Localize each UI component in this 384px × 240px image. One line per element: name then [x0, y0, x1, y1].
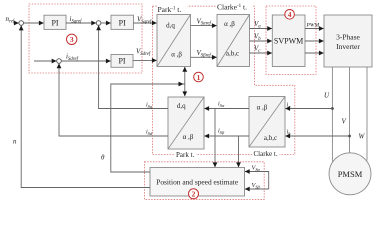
wire theta output to Park transforms	[111, 84, 185, 172]
block SVPWM	[272, 15, 305, 67]
svg-text:PI: PI	[118, 57, 125, 66]
motor PMSM	[329, 153, 371, 195]
wire Park-1 to Clarke-1 row alpha, label V_Saref	[191, 25, 217, 27]
wire i_Sd feedback to S3	[59, 63, 168, 136]
wire PI3 to Park-1, label V_Sdref	[133, 59, 157, 61]
red dashed region 3 (speed/current PI controllers)	[29, 4, 142, 73]
label Clarke-1 t.	[217, 2, 253, 11]
block Clarke inverse transform	[217, 15, 250, 67]
svg-text:PI: PI	[119, 18, 126, 27]
svg-text:Clarke-1 t.: Clarke-1 t.	[217, 3, 247, 12]
red dashed region 4 (SVPWM)	[266, 6, 316, 75]
svg-text:a,b,c: a,b,c	[226, 49, 239, 57]
svg-text:n: n	[13, 138, 17, 146]
svg-text:d,q: d,q	[177, 102, 186, 110]
red circled 3	[67, 34, 77, 44]
wire SVPWM to inverter 3	[305, 52, 324, 54]
wire theta to Park-1 (up arrow)	[184, 67, 186, 84]
svg-text:PI: PI	[51, 18, 58, 27]
block PI2 (q-axis current controller)	[111, 15, 134, 29]
red circled 1	[194, 72, 204, 82]
wire Clarke-1 to SVPWM Vc	[250, 52, 272, 54]
block Clarke transform	[249, 97, 285, 148]
block PI3 (d-axis current controller)	[111, 55, 133, 68]
svg-text:SVPWM: SVPWM	[274, 37, 303, 46]
wire n_ref input	[16, 22, 19, 24]
wire current ib from V to Clarke t., junction dot	[348, 135, 351, 138]
wire i_Salpha Clarke t. to Park t.	[204, 108, 249, 110]
svg-text:α ,β: α ,β	[171, 50, 182, 58]
block Park inverse transform U-Park	[157, 15, 191, 67]
svg-text:V: V	[342, 118, 347, 126]
wire current ia from U to Clarke t., junction dot	[331, 107, 334, 110]
red dashed region 2 (position and speed estimator)	[145, 162, 265, 200]
svg-text:Park-1 t.: Park-1 t.	[158, 5, 182, 14]
svg-text:α ,β: α ,β	[257, 104, 268, 112]
summing junction S2	[96, 21, 101, 26]
wire S1 to PI1	[24, 22, 44, 24]
label Park-1 t.	[157, 5, 188, 14]
svg-text:3-Phase: 3-Phase	[336, 33, 360, 42]
svg-text:Park t.: Park t.	[176, 151, 195, 159]
block PI1 (speed controller)	[44, 15, 66, 29]
red circled 4	[285, 10, 295, 20]
wire i_Salpha tap to estimator	[214, 109, 216, 168]
block Park transform	[168, 97, 204, 149]
wire phase U	[331, 67, 333, 162]
wire S3 to PI3	[61, 60, 110, 62]
wire Clarke-1 to SVPWM Vb	[250, 40, 272, 42]
svg-text:2: 2	[192, 190, 196, 199]
wire PI2 to Park-1, label V_Sqref	[134, 22, 157, 24]
wire i_Sbeta Clarke t. to Park t.	[204, 135, 249, 137]
label Park t.	[175, 150, 196, 158]
wire Park-1 to Clarke-1 row beta, label V_Sbref	[191, 56, 217, 58]
wire PI1 to S2, label i_Sqref	[66, 22, 96, 24]
svg-text:Position and speed estimate: Position and speed estimate	[156, 178, 239, 187]
block 3-phase inverter	[324, 15, 372, 67]
svg-text:α ,β: α ,β	[224, 20, 235, 28]
summing junction S1	[19, 21, 24, 26]
svg-text:3: 3	[70, 35, 74, 44]
wire i_Sdref input to S3	[34, 60, 56, 62]
wire V_Sbeta input to estimator	[245, 188, 269, 190]
wire V_Salpha input to estimator	[245, 172, 269, 190]
svg-text:a,b,c: a,b,c	[264, 134, 277, 142]
block position and speed estimator	[150, 168, 245, 197]
svg-text:1: 1	[197, 73, 201, 82]
svg-text:Clarke t.: Clarke t.	[254, 150, 278, 158]
wire phase W	[366, 67, 368, 161]
wire Clarke-1 to SVPWM Va	[250, 28, 272, 30]
red dashed region 1 (coordinate transforms, L-shaped)	[153, 6, 295, 154]
svg-text:α ,β: α ,β	[183, 133, 194, 141]
svg-text:Inverter: Inverter	[336, 42, 360, 51]
svg-text:d,q: d,q	[166, 21, 175, 29]
wire i_Sq feedback to S2	[99, 25, 168, 108]
wire phase V	[349, 67, 351, 154]
wire i_Sbeta tap to estimator	[238, 136, 240, 167]
svg-text:4: 4	[288, 10, 292, 19]
wire SVPWM to inverter 2	[305, 40, 324, 42]
svg-text:θ: θ	[101, 154, 105, 162]
svg-text:PWM: PWM	[306, 23, 320, 29]
summing junction S3	[57, 59, 62, 64]
label Clarke t.	[253, 150, 280, 158]
wire theta to Park t. (down arrow)	[184, 84, 186, 96]
red circled 2	[189, 189, 199, 199]
svg-text:PMSM: PMSM	[338, 169, 363, 179]
wire SVPWM to inverter 1, label PWM	[305, 28, 324, 30]
wire speed n feedback to S1	[21, 25, 150, 187]
wire S2 to PI2	[101, 22, 111, 24]
